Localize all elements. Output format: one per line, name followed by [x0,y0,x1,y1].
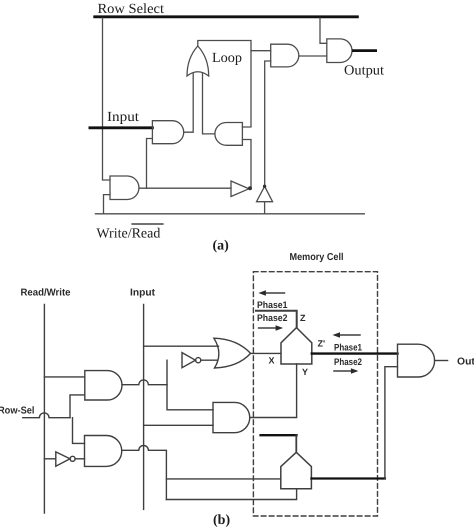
wire AND5 bottom input stub from bottom rail [104,195,111,214]
wire thick stub into P2 apex [261,434,297,436]
wire NOT-b2 output to AND-b2 bottom input [75,458,84,460]
pentagon P2 (phase element) [281,452,312,489]
not gate NOT-b1 [182,353,195,368]
wire AND3 output up to OR-a left leg [184,73,194,132]
and gate AND5 (bottom left AND) [110,176,139,200]
junction dot BUF1 output [248,186,252,190]
wire AND4 bottom input down to BUF1 output junction [242,140,251,189]
svg-text:Memory Cell: Memory Cell [290,252,344,263]
wire P2 output (thick) right then up to AND-b4 bottom input [311,477,385,479]
wire AND-b3 bottom input from Input bus [144,424,213,426]
svg-text:(a): (a) [213,239,230,254]
wire Input line (thick) [90,126,152,129]
or-gate OR-a (Loop oscillator OR, pointing up) [187,46,209,76]
wire AND-b3 output right and up to P1 Y [250,364,297,418]
wire AND4 output left and up to OR-a right leg [203,73,215,134]
and gate AND-b4 (output AND) [398,344,435,377]
svg-text:Row-Sel: Row-Sel [0,406,35,417]
wire AND3 bottom input leg down to AND5 output wire [147,139,153,189]
and gate AND1 (top left of pair) [271,44,299,67]
svg-text:Phase1: Phase1 [257,300,288,311]
wire bottom rail of (a) [95,213,364,215]
svg-text:Input: Input [107,110,139,125]
svg-text:Phase1: Phase1 [334,343,363,354]
wire Row-Sel up to AND-b1 bottom input [70,395,85,418]
svg-text:Output: Output [457,357,474,368]
wire loop feedback: OR-a apex up, right, down to AND4 top input [198,41,251,128]
wire phase bus into P1 apex [256,311,297,328]
wire AND2 top input from Row Select bus [320,18,327,43]
and gate AND4 (mirrored, pointing left) [215,123,243,146]
svg-text:Output: Output [344,64,384,79]
svg-text:Write/Read: Write/Read [96,227,160,242]
svg-text:Read/Write: Read/Write [21,288,71,299]
arrow right below Phase2 (right) [334,370,353,372]
dashed memory cell box [253,272,377,516]
svg-text:Z': Z' [318,339,326,349]
wire Row Select bus (thick) [95,15,358,18]
wire NOT-b1 output to OR-b lower input [201,359,218,361]
svg-text:Input: Input [130,288,156,299]
wire Read/Write bus vertical [43,305,45,514]
svg-text:X: X [269,356,275,366]
svg-text:Phase2: Phase2 [334,357,362,368]
wire feed to P2 bottom [166,489,296,500]
wire AND1 top input from loop line [251,50,271,52]
arrow left above Phase1 (left) [264,292,285,294]
svg-text:(b): (b) [213,513,230,528]
wire Row-Sel with hop over Read/Write bus [23,413,70,418]
svg-text:Phase2: Phase2 [257,313,288,324]
buffer BUF2 (up-pointing) [257,186,273,201]
wire BUF2 bottom stub to bottom rail [264,202,266,214]
wire OR-b top input from Input bus [144,345,219,347]
wire AND-b1 output with hop over Input bus [122,380,167,385]
wire feed to P2 left input [166,478,280,480]
wire Output (thick) [353,49,375,52]
wire Row-Sel down to AND-b2 top input [73,418,85,444]
and gate AND-b2 [85,436,122,467]
svg-text:Row Select: Row Select [98,2,165,17]
arrow left above Phase1 (right) [338,334,360,336]
wire AND-b1 top input from Read/Write bus [44,376,84,378]
svg-text:Z: Z [300,313,306,323]
svg-text:Loop: Loop [212,51,242,66]
and gate AND2 (output AND) [327,39,352,63]
wire AND5 output long wire to BUF1 input [139,187,231,189]
wire Z' thick line to AND-b4 top input [312,352,398,354]
wire AND1 output to AND2 bottom input [299,55,327,57]
not gate NOT-b2 [56,452,70,466]
wire AND-b2 output with hop over Input bus, down to feed wires [122,446,167,500]
wire AND1 bottom input from BUF2 output (vertical) [265,61,271,186]
and gate AND-b1 [85,371,122,400]
pentagon P1 (memory element) [281,328,312,364]
wire OR-b output to pentagon P1 X input [251,352,281,354]
wire vertical from Row Select down to AND5 top input [103,18,111,180]
wire NOT-b2 input from Read/Write bus [44,458,55,460]
arrow right below Phase2 (left) [259,327,278,329]
svg-text:Y: Y [302,367,308,377]
or gate OR-b [214,338,251,368]
wire AND-b4 output [435,360,448,362]
wire vertical x167 (NOT-b1 input / AND-b3 top input) [167,360,213,410]
and gate AND3 (input AND) [152,121,183,144]
and gate AND-b3 (middle) [213,402,250,432]
junction dot BUF2 apex [263,185,266,188]
buffer BUF1 (right-pointing) [231,181,249,197]
wire Input bus vertical [143,305,145,510]
